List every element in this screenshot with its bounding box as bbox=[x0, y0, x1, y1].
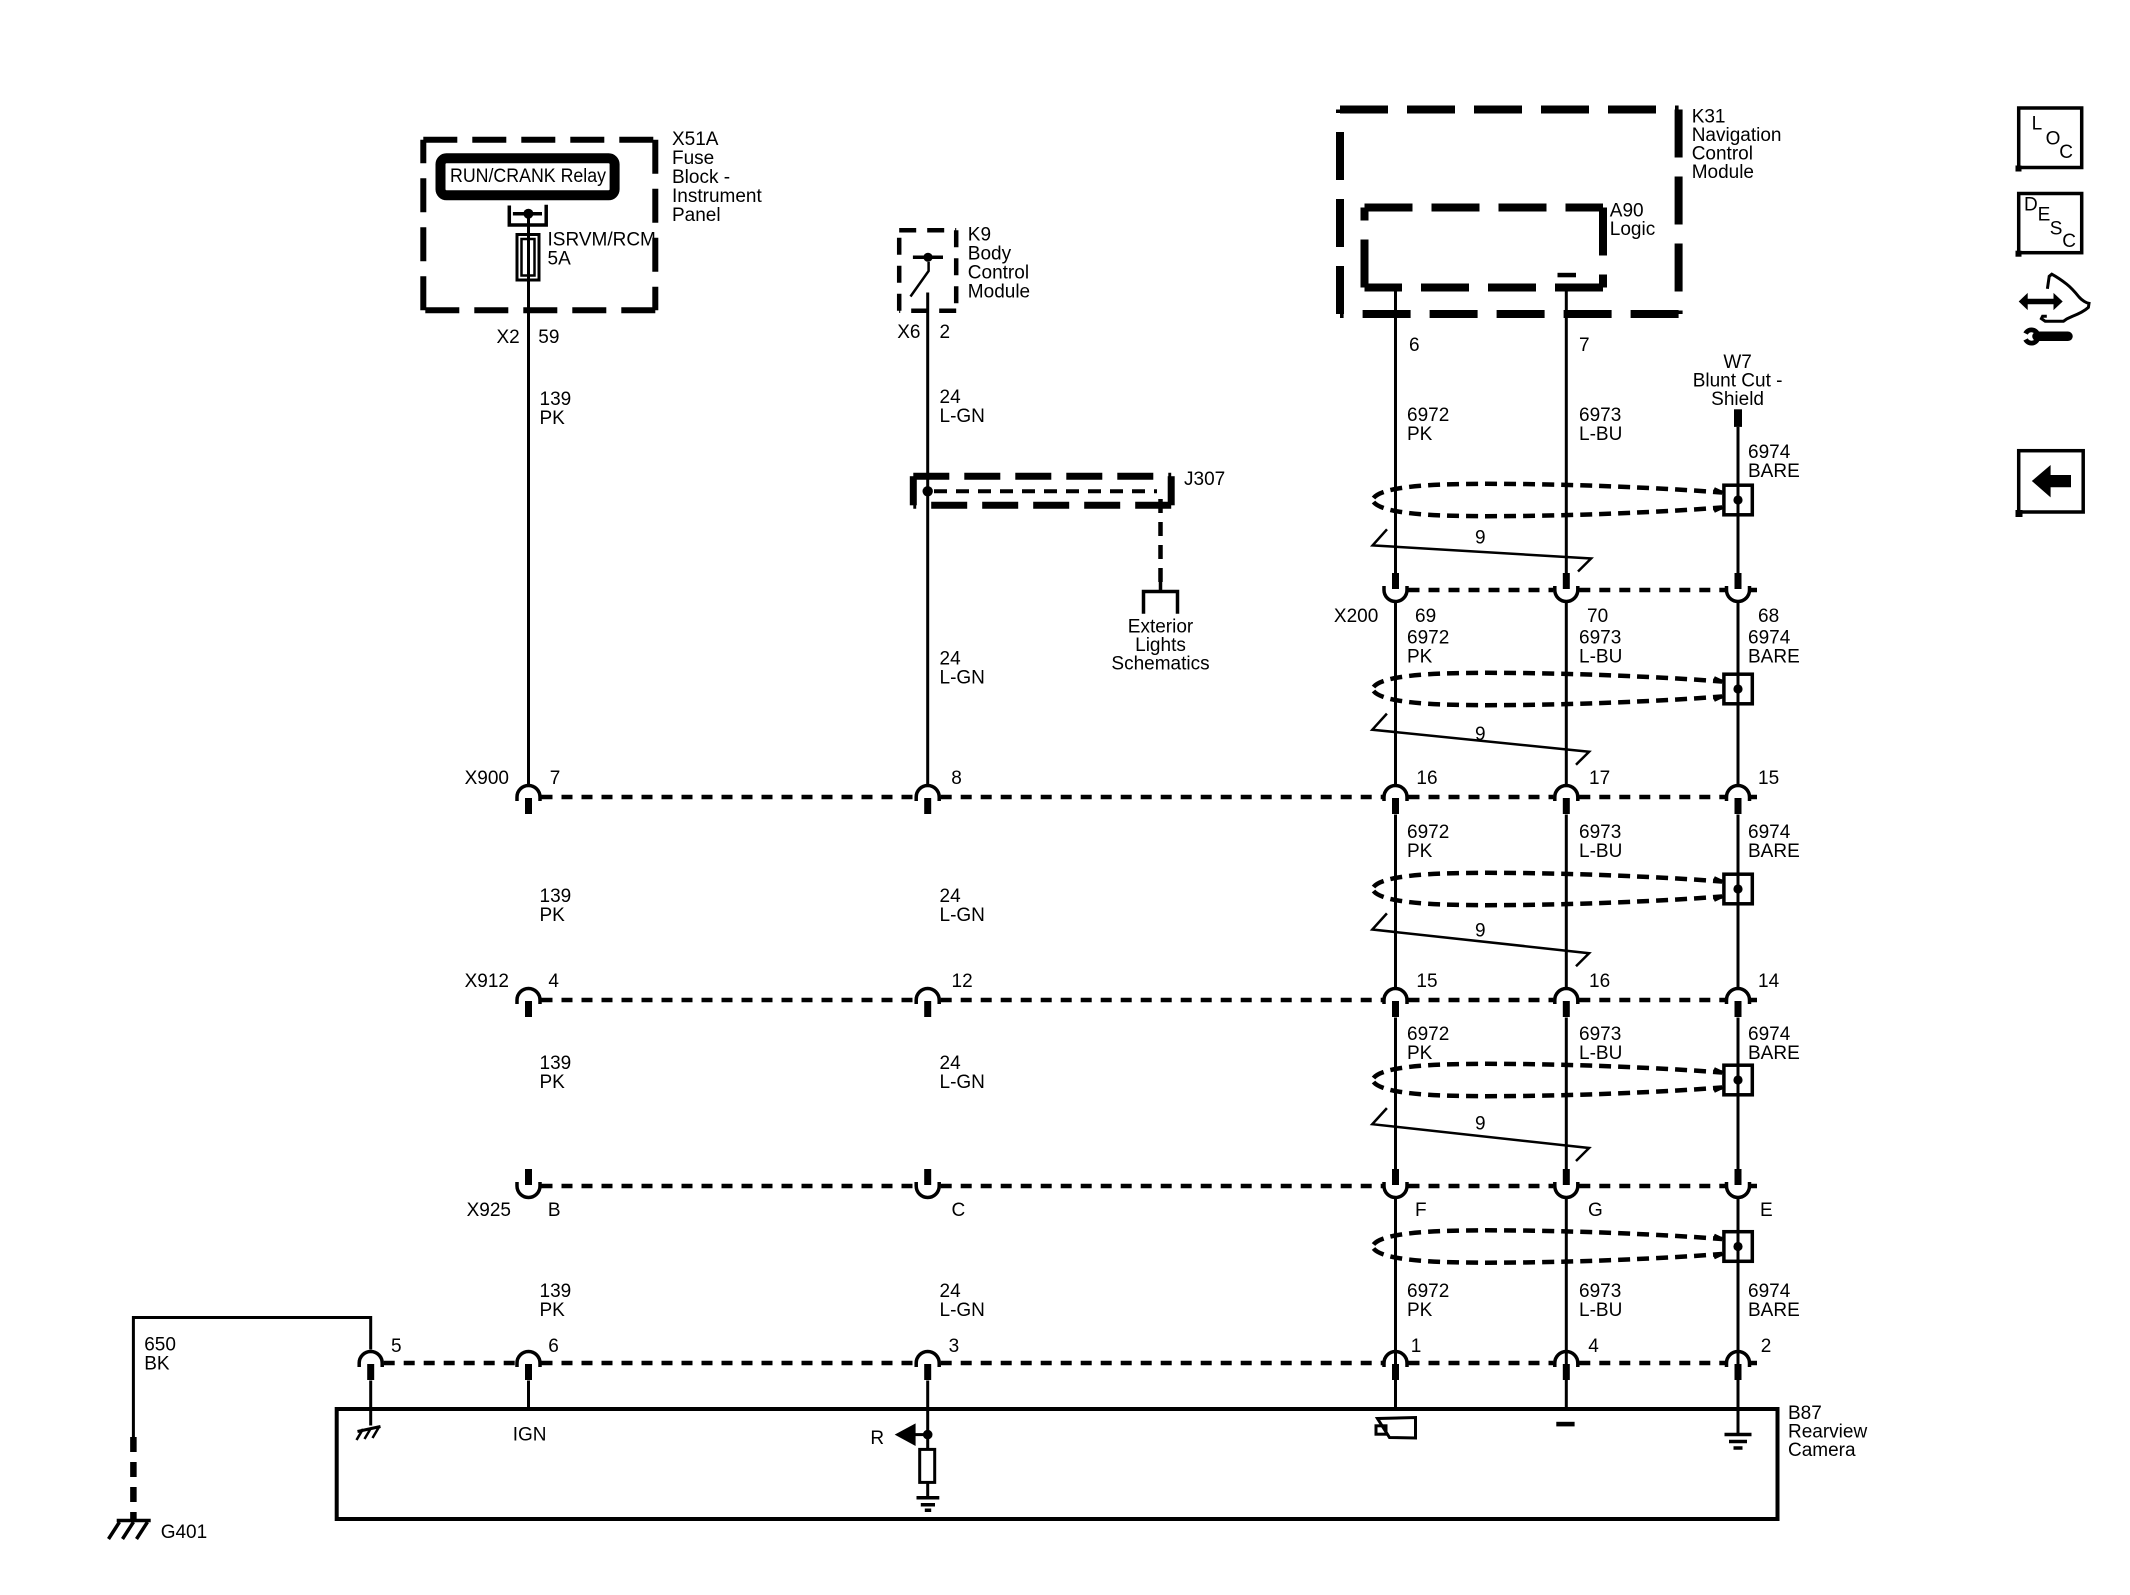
svg-text:6972: 6972 bbox=[1407, 822, 1449, 843]
shield connector box 4 bbox=[1724, 1065, 1752, 1095]
svg-text:6974: 6974 bbox=[1748, 442, 1791, 463]
arrow R output bbox=[895, 1423, 916, 1446]
module K9 Body Control Module box bbox=[899, 228, 956, 233]
svg-text:7: 7 bbox=[1579, 335, 1590, 356]
svg-text:650: 650 bbox=[144, 1335, 176, 1356]
svg-text:X925: X925 bbox=[467, 1200, 511, 1221]
shield connector box 2 bbox=[1724, 674, 1752, 704]
node relay output junction dot bbox=[523, 209, 533, 219]
connector X200 cavity 69 bump bbox=[1384, 586, 1407, 602]
svg-text:6972: 6972 bbox=[1407, 628, 1449, 649]
svg-text:6973: 6973 bbox=[1579, 822, 1621, 843]
wire 650 BK horizontal bbox=[133, 1318, 370, 1438]
connector X900 cavity 17 bump bbox=[1555, 786, 1578, 801]
wire 6974 BARE X912 to X925 bbox=[1737, 1018, 1740, 1170]
shield drain group 4 ellipse top bbox=[1374, 1064, 1723, 1078]
svg-text:6974: 6974 bbox=[1748, 1024, 1791, 1045]
svg-text:X200: X200 bbox=[1334, 606, 1378, 627]
svg-text:E: E bbox=[1760, 1200, 1773, 1221]
svg-text:PK: PK bbox=[1407, 424, 1433, 445]
svg-text:Module: Module bbox=[968, 282, 1030, 303]
svg-text:B: B bbox=[548, 1200, 561, 1221]
connector camera cavity 5 bump bbox=[359, 1352, 382, 1367]
icon vehicle repair (wrench) bbox=[2023, 328, 2041, 346]
switch in K9 contact dot bbox=[923, 253, 932, 262]
svg-text:BARE: BARE bbox=[1748, 841, 1800, 862]
wire resistor to ground bbox=[926, 1482, 929, 1496]
svg-text:6: 6 bbox=[548, 1336, 559, 1357]
shield connector box 1 arrow ticks bbox=[1714, 489, 1723, 511]
shield connector box 1 bbox=[1724, 485, 1752, 515]
svg-text:6974: 6974 bbox=[1748, 1281, 1791, 1302]
wire 139 PK fuse to X900 connector bbox=[527, 282, 530, 785]
wire 6974 BARE X200 to X900 bbox=[1737, 602, 1740, 784]
minus polarity mark in camera (pin 4) bbox=[1556, 1422, 1574, 1427]
connector camera cavity 3 bump bbox=[916, 1352, 939, 1368]
fuse ISRVM/RCM 5A inner body bbox=[522, 239, 535, 276]
wire 6974 BARE X900 to X912 bbox=[1737, 815, 1740, 989]
wire pin5 into camera box bbox=[369, 1381, 372, 1426]
svg-text:6972: 6972 bbox=[1407, 405, 1449, 426]
svg-text:7: 7 bbox=[550, 768, 561, 789]
svg-text:69: 69 bbox=[1415, 606, 1436, 627]
connector X200 dashed line bbox=[1409, 588, 1758, 593]
svg-text:Body: Body bbox=[968, 244, 1012, 265]
svg-text:Panel: Panel bbox=[672, 205, 721, 226]
icon LOC box bbox=[2019, 108, 2082, 168]
connector X200 cavity 70 bump bbox=[1555, 586, 1578, 602]
connector camera cavity 1 bump bbox=[1384, 1352, 1407, 1368]
svg-text:6974: 6974 bbox=[1748, 628, 1791, 649]
twisted pair mark group 3 bbox=[1372, 913, 1589, 966]
minus polarity mark in A90 bbox=[1558, 273, 1577, 278]
switch in K9 blade bbox=[911, 262, 929, 297]
svg-text:9: 9 bbox=[1475, 528, 1486, 549]
svg-text:15: 15 bbox=[1758, 768, 1779, 789]
wire 6973 L-BU X200 to X900 bbox=[1565, 602, 1568, 784]
svg-text:4: 4 bbox=[548, 971, 559, 992]
connector X900 cavity 8 bump bbox=[916, 786, 939, 801]
svg-text:RUN/CRANK Relay: RUN/CRANK Relay bbox=[450, 166, 606, 187]
fuse ISRVM/RCM 5A wire through bbox=[527, 233, 530, 282]
off-page connector Exterior Lights goalpost bbox=[1144, 582, 1178, 614]
connector X925 cavity C bump bbox=[916, 1182, 939, 1198]
svg-text:F: F bbox=[1415, 1200, 1427, 1221]
connector X200 cavity 68 bump bbox=[1727, 586, 1750, 602]
svg-text:L-BU: L-BU bbox=[1579, 647, 1622, 668]
svg-text:X6: X6 bbox=[897, 322, 920, 343]
connector X912 cavity 14 bump bbox=[1727, 989, 1750, 1005]
relay KR output pin contact line bbox=[513, 212, 542, 216]
svg-text:L-GN: L-GN bbox=[940, 406, 985, 427]
connector X925 cavity E bump bbox=[1727, 1182, 1750, 1198]
svg-text:PK: PK bbox=[540, 1072, 566, 1093]
connector X900 cavity 15 bump bbox=[1727, 786, 1750, 801]
node R junction dot bbox=[923, 1430, 933, 1440]
ground in camera (shield, pin 2) bbox=[1725, 1435, 1752, 1449]
svg-text:5A: 5A bbox=[548, 249, 572, 270]
svg-text:PK: PK bbox=[1407, 647, 1433, 668]
splice J307 box bbox=[913, 473, 1171, 480]
chassis ground in camera (pin 5) bbox=[358, 1427, 381, 1432]
connector camera cavity 6 bump bbox=[517, 1352, 540, 1368]
svg-text:L-GN: L-GN bbox=[940, 668, 985, 689]
shield connector box 3 dot bbox=[1733, 884, 1742, 893]
twisted pair mark group 2 bbox=[1372, 714, 1589, 765]
wire pin3 R into camera box bbox=[926, 1381, 929, 1450]
svg-text:L-BU: L-BU bbox=[1579, 1300, 1622, 1321]
connector X900 cavity 7 bump bbox=[517, 786, 540, 801]
wire pin6 IGN into camera box bbox=[527, 1381, 530, 1410]
connector X925 cavity F bump bbox=[1384, 1182, 1407, 1198]
wire 6972 PK X200 to X900 bbox=[1394, 602, 1397, 784]
svg-text:BK: BK bbox=[144, 1354, 170, 1375]
fuse ISRVM/RCM 5A outer body bbox=[517, 235, 539, 281]
svg-text:L-BU: L-BU bbox=[1579, 1043, 1622, 1064]
svg-text:16: 16 bbox=[1416, 768, 1437, 789]
svg-text:PK: PK bbox=[540, 905, 566, 926]
svg-text:3: 3 bbox=[949, 1336, 960, 1357]
svg-text:Shield: Shield bbox=[1711, 389, 1764, 410]
wire J307 branch vertical dashed bbox=[1158, 499, 1163, 582]
icon back arrow box bbox=[2019, 451, 2084, 512]
svg-text:2: 2 bbox=[940, 322, 951, 343]
svg-text:Fuse: Fuse bbox=[672, 148, 714, 169]
svg-text:9: 9 bbox=[1475, 921, 1486, 942]
svg-text:8: 8 bbox=[951, 768, 962, 789]
svg-text:2: 2 bbox=[1761, 1336, 1772, 1357]
connector X925 dashed line bbox=[542, 1184, 1758, 1189]
svg-text:X2: X2 bbox=[496, 327, 519, 348]
svg-text:PK: PK bbox=[540, 1300, 566, 1321]
connector X900 cavity 16 bump bbox=[1384, 786, 1407, 801]
svg-text:139: 139 bbox=[540, 389, 572, 410]
svg-text:Logic: Logic bbox=[1610, 219, 1655, 240]
svg-text:D: D bbox=[2024, 194, 2038, 215]
svg-text:BARE: BARE bbox=[1748, 461, 1800, 482]
fuse block X51A box bbox=[423, 137, 655, 143]
shield drain group 1 ellipse top bbox=[1374, 484, 1723, 498]
svg-text:BARE: BARE bbox=[1748, 1300, 1800, 1321]
svg-text:G401: G401 bbox=[161, 1522, 207, 1543]
wire relay to fuse bbox=[527, 214, 530, 233]
node J307 junction dot bbox=[923, 486, 933, 496]
blunt cut W7 end bar bbox=[1734, 409, 1742, 427]
icon vehicle repair (outline) bbox=[2041, 274, 2089, 321]
svg-text:E: E bbox=[2038, 204, 2051, 225]
resistor in camera bbox=[920, 1449, 935, 1482]
camera B87 box bbox=[337, 1409, 1778, 1519]
svg-text:O: O bbox=[2046, 129, 2061, 150]
svg-text:L-GN: L-GN bbox=[940, 905, 985, 926]
shield connector box 4 dot bbox=[1733, 1075, 1742, 1084]
wire 650 BK dashed to G401 bbox=[130, 1437, 137, 1519]
svg-text:Control: Control bbox=[968, 263, 1029, 284]
svg-text:IGN: IGN bbox=[513, 1425, 547, 1446]
svg-text:139: 139 bbox=[540, 886, 572, 907]
connector X912 dashed line bbox=[542, 998, 1758, 1003]
module K31 Navigation Control Module box bbox=[1340, 106, 1679, 114]
logic block A90 box bbox=[1365, 204, 1604, 212]
svg-text:Block -: Block - bbox=[672, 167, 730, 188]
svg-text:Instrument: Instrument bbox=[672, 186, 762, 207]
svg-text:24: 24 bbox=[940, 649, 962, 670]
connector X912 cavity 12 bump bbox=[916, 989, 939, 1005]
wire 6973 L-BU X912 to X925 bbox=[1565, 1018, 1568, 1170]
svg-text:6974: 6974 bbox=[1748, 822, 1791, 843]
svg-text:6972: 6972 bbox=[1407, 1024, 1449, 1045]
wire 6974 BARE W7 to X200 connector bbox=[1737, 427, 1740, 573]
svg-text:G: G bbox=[1588, 1200, 1603, 1221]
switch in K9 contact line bbox=[913, 256, 943, 260]
svg-text:6: 6 bbox=[1409, 335, 1420, 356]
ground in camera (signal) bbox=[917, 1498, 940, 1510]
wire 6973 L-BU X900 to X912 bbox=[1565, 815, 1568, 989]
svg-text:24: 24 bbox=[940, 387, 962, 408]
shield drain group 5 ellipse bottom bbox=[1374, 1249, 1723, 1263]
svg-text:Module: Module bbox=[1692, 162, 1754, 183]
connector camera cavity 4 bump bbox=[1555, 1352, 1578, 1368]
svg-text:PK: PK bbox=[1407, 841, 1433, 862]
connector X912 cavity 16 bump bbox=[1555, 989, 1578, 1005]
wire 6972 PK pin6 to X200 connector bbox=[1394, 288, 1397, 574]
svg-text:24: 24 bbox=[940, 886, 962, 907]
svg-text:C: C bbox=[952, 1200, 966, 1221]
svg-text:24: 24 bbox=[940, 1281, 962, 1302]
twisted pair mark group 4 bbox=[1372, 1108, 1589, 1161]
shield drain group 4 ellipse bottom bbox=[1374, 1082, 1723, 1096]
connector X912 cavity 15 bump bbox=[1384, 989, 1407, 1005]
svg-text:C: C bbox=[2059, 142, 2073, 163]
svg-text:24: 24 bbox=[940, 1053, 962, 1074]
svg-text:59: 59 bbox=[538, 327, 559, 348]
svg-text:14: 14 bbox=[1758, 971, 1780, 992]
shield drain group 3 ellipse top bbox=[1374, 873, 1723, 887]
svg-text:J307: J307 bbox=[1184, 469, 1225, 490]
svg-text:6973: 6973 bbox=[1579, 628, 1621, 649]
svg-text:L-BU: L-BU bbox=[1579, 424, 1622, 445]
connector camera cavity 2 bump bbox=[1727, 1352, 1750, 1368]
svg-text:PK: PK bbox=[1407, 1043, 1433, 1064]
svg-text:6972: 6972 bbox=[1407, 1281, 1449, 1302]
svg-text:C: C bbox=[2062, 231, 2076, 252]
connector X900 dashed line bbox=[542, 795, 1758, 800]
svg-text:PK: PK bbox=[540, 408, 566, 429]
shield connector box 5 dot bbox=[1733, 1242, 1742, 1251]
wire 24 L-GN K9 to X900 connector bbox=[926, 293, 929, 785]
svg-text:K9: K9 bbox=[968, 225, 991, 246]
relay KR output pin cup bbox=[509, 205, 546, 225]
wire 6972 PK X900 to X912 bbox=[1394, 815, 1397, 989]
shield connector box 2 dot bbox=[1733, 684, 1742, 693]
svg-text:9: 9 bbox=[1475, 1114, 1486, 1135]
shield connector box 3 arrow ticks bbox=[1714, 878, 1723, 900]
wire 6972 PK X912 to X925 bbox=[1394, 1018, 1397, 1170]
relay KR RUN/CRANK Relay box bbox=[441, 158, 615, 195]
wire 6973 L-BU X925 to camera bbox=[1565, 1198, 1568, 1409]
shield connector box 3 bbox=[1724, 874, 1752, 904]
shield drain group 2 ellipse top bbox=[1374, 673, 1723, 687]
connector X912 cavity 4 bump bbox=[517, 989, 540, 1005]
shield drain group 5 ellipse top bbox=[1374, 1230, 1723, 1244]
svg-text:S: S bbox=[2050, 219, 2063, 240]
svg-text:6973: 6973 bbox=[1579, 405, 1621, 426]
svg-text:BARE: BARE bbox=[1748, 1043, 1800, 1064]
shield connector box 2 arrow ticks bbox=[1714, 678, 1723, 700]
shield drain group 2 ellipse bottom bbox=[1374, 691, 1723, 705]
svg-text:70: 70 bbox=[1587, 606, 1608, 627]
svg-text:R: R bbox=[870, 1428, 884, 1449]
svg-text:Schematics: Schematics bbox=[1111, 654, 1209, 675]
svg-text:139: 139 bbox=[540, 1053, 572, 1074]
svg-text:6973: 6973 bbox=[1579, 1024, 1621, 1045]
shield connector box 5 bbox=[1724, 1232, 1752, 1262]
ground G401 symbol bbox=[117, 1519, 151, 1523]
shield drain group 3 ellipse bottom bbox=[1374, 891, 1723, 905]
svg-text:5: 5 bbox=[391, 1336, 402, 1357]
svg-text:L: L bbox=[2032, 114, 2043, 135]
svg-text:15: 15 bbox=[1416, 971, 1437, 992]
shield connector box 4 arrow ticks bbox=[1714, 1069, 1723, 1091]
svg-text:1: 1 bbox=[1411, 1336, 1422, 1357]
svg-text:139: 139 bbox=[540, 1281, 572, 1302]
svg-text:Camera: Camera bbox=[1788, 1440, 1856, 1461]
svg-text:X51A: X51A bbox=[672, 129, 719, 150]
connector X925 cavity B bump bbox=[517, 1182, 540, 1198]
wire 6973 L-BU pin7 to X200 connector bbox=[1565, 288, 1568, 574]
shield drain group 1 ellipse bottom bbox=[1374, 502, 1723, 516]
svg-text:X912: X912 bbox=[465, 971, 509, 992]
connector X925 cavity G bump bbox=[1555, 1182, 1578, 1198]
wire 6974 BARE X925 to camera ground bbox=[1737, 1198, 1740, 1433]
wire 6972 PK X925 to camera bbox=[1394, 1198, 1397, 1409]
svg-text:68: 68 bbox=[1758, 606, 1779, 627]
shield connector box 1 dot bbox=[1733, 495, 1742, 504]
svg-text:ISRVM/RCM: ISRVM/RCM bbox=[548, 230, 656, 251]
svg-text:L-BU: L-BU bbox=[1579, 841, 1622, 862]
shield connector box 5 arrow ticks bbox=[1714, 1236, 1723, 1258]
twisted pair mark group 1 bbox=[1373, 529, 1592, 571]
svg-text:L-GN: L-GN bbox=[940, 1072, 985, 1093]
svg-text:4: 4 bbox=[1588, 1336, 1599, 1357]
connector camera row dashed line bbox=[384, 1361, 1757, 1366]
svg-text:12: 12 bbox=[952, 971, 973, 992]
icon back arrow bbox=[2032, 465, 2071, 497]
svg-text:6973: 6973 bbox=[1579, 1281, 1621, 1302]
camera icon bbox=[1378, 1418, 1416, 1439]
svg-text:17: 17 bbox=[1589, 768, 1610, 789]
svg-text:L-GN: L-GN bbox=[940, 1300, 985, 1321]
svg-text:X900: X900 bbox=[465, 768, 509, 789]
svg-text:16: 16 bbox=[1589, 971, 1610, 992]
icon vehicle repair (two-way arrow) bbox=[2019, 293, 2063, 310]
wire J307 branch horizontal dashed bbox=[934, 489, 1157, 493]
icon DESC box bbox=[2019, 194, 2082, 253]
svg-text:PK: PK bbox=[1407, 1300, 1433, 1321]
svg-text:BARE: BARE bbox=[1748, 647, 1800, 668]
